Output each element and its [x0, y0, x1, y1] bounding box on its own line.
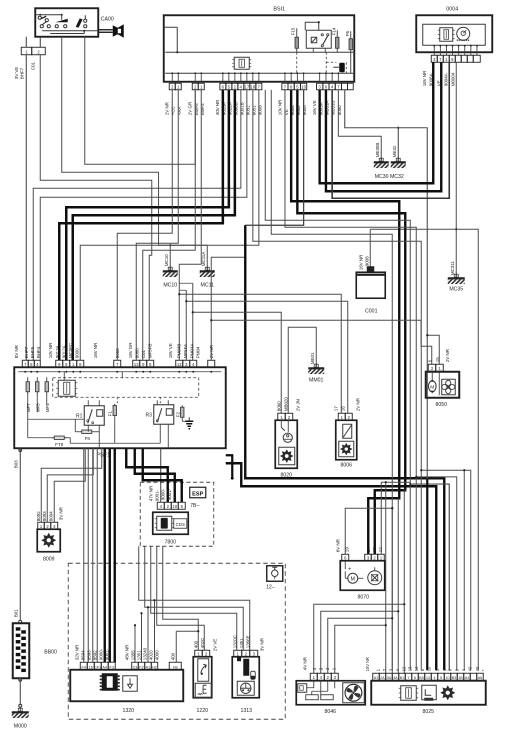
label 1320	[122, 708, 134, 714]
svg-text:PM04B: PM04B	[177, 344, 182, 359]
svg-text:F14: F14	[331, 27, 336, 35]
ground M000	[12, 707, 29, 718]
connector 1320	[80, 662, 181, 670]
svg-text:PM04: PM04	[196, 346, 201, 358]
svg-text:M: M	[351, 577, 355, 583]
wire 0004 to MC35	[455, 62, 457, 277]
svg-text:FT8: FT8	[55, 442, 64, 447]
svg-text:1B: 1B	[458, 676, 463, 680]
BSI1 outer box	[164, 15, 355, 82]
svg-text:8093: 8093	[42, 511, 47, 521]
svg-text:13: 13	[372, 547, 377, 552]
label PSF1	[97, 452, 110, 458]
label B01	[13, 609, 18, 617]
svg-text:2A: 2A	[380, 676, 385, 680]
wire psf right thick to 8025	[245, 225, 444, 670]
0004 connector	[431, 55, 480, 62]
compressor 8020 box	[275, 420, 297, 468]
wire C001 up	[370, 229, 456, 272]
svg-text:8060: 8060	[337, 105, 342, 115]
svg-text:F6: F6	[345, 31, 350, 37]
wire bsi 9002 thick to 8070	[297, 90, 405, 555]
svg-text:10: 10	[301, 85, 306, 90]
svg-text:2V NR: 2V NR	[209, 344, 214, 358]
svg-text:16V NR: 16V NR	[422, 70, 427, 86]
label 7B	[190, 503, 200, 509]
wire psf right stub2 thick to 8025	[226, 463, 437, 670]
wire 8006 feed2	[185, 300, 348, 413]
svg-text:CDS: CDS	[176, 522, 185, 527]
svg-text:B3: B3	[452, 676, 456, 680]
svg-text:PSF1: PSF1	[97, 452, 110, 458]
label C001	[365, 308, 378, 314]
label 3V VE	[14, 67, 19, 80]
svg-text:40: 40	[468, 666, 473, 671]
svg-text:4: 4	[434, 676, 436, 680]
svg-text:3V NR: 3V NR	[259, 637, 264, 651]
svg-text:BHF5: BHF5	[30, 346, 35, 358]
PSF1 IC	[56, 380, 77, 396]
wire bsi17 to psf	[33, 90, 241, 361]
label MC30 MC32	[375, 174, 404, 180]
svg-text:F2: F2	[175, 412, 180, 418]
wire bsi18 to psf	[40, 90, 247, 361]
svg-text:PM04A: PM04A	[190, 343, 195, 359]
ground MC11	[200, 251, 215, 277]
wires psf to 7800	[126, 448, 182, 502]
wires 8009 feeds	[41, 448, 102, 522]
svg-text:MC35: MC35	[449, 286, 463, 292]
svg-text:16V VE: 16V VE	[312, 100, 317, 115]
label MC35	[449, 286, 463, 292]
svg-text:BHF7: BHF7	[24, 346, 29, 358]
PSF1 top bus	[18, 371, 221, 373]
svg-text:16: 16	[340, 406, 345, 411]
wire bsi7g3 to psf	[80, 90, 259, 361]
wire psf4 riser	[179, 283, 193, 360]
wires 1320 right risers	[134, 599, 156, 662]
svg-text:9012A: 9012A	[62, 344, 67, 358]
svg-text:7800: 7800	[164, 539, 176, 545]
wires 8046 staircase	[314, 481, 406, 673]
wire psf 2vnr	[211, 256, 246, 360]
svg-text:8060: 8060	[135, 348, 140, 358]
label BHF7	[19, 67, 24, 79]
svg-text:9008: 9008	[258, 105, 263, 115]
label 8050	[435, 402, 447, 408]
svg-text:8050: 8050	[435, 402, 447, 408]
labels 8025	[365, 657, 486, 671]
ignition contact 3	[76, 15, 87, 28]
label M000	[14, 723, 27, 729]
ECU 8025 box	[371, 681, 486, 705]
wire 7800 to 1313 p3	[139, 546, 250, 650]
PSF1 internal wires	[28, 372, 186, 449]
label 8046	[324, 709, 336, 715]
fan resistor 8006 box	[336, 420, 357, 460]
svg-text:9001-: 9001-	[167, 488, 172, 500]
relay R1	[76, 400, 104, 425]
svg-text:40V NR: 40V NR	[215, 99, 220, 115]
connector 1220	[195, 650, 210, 657]
wire ign c2 right run	[62, 37, 159, 246]
ground MC10	[163, 254, 178, 277]
svg-text:2V NR: 2V NR	[165, 101, 170, 115]
label B03	[13, 460, 18, 468]
svg-text:19: 19	[344, 547, 349, 552]
label 0004	[446, 6, 458, 12]
PSF1 pin labels	[14, 342, 214, 359]
fan unit 8050 box	[426, 372, 460, 398]
svg-text:MF5: MF5	[35, 403, 40, 412]
svg-text:B1: B1	[400, 676, 404, 680]
svg-text:B01: B01	[13, 609, 18, 617]
wire MC32 junction	[397, 127, 399, 162]
svg-text:A4: A4	[465, 676, 469, 680]
ignition switch module CA00 box	[35, 8, 98, 37]
wire bsi6 to psf thick	[59, 90, 223, 361]
svg-text:A6: A6	[478, 676, 482, 680]
label CA00	[101, 16, 114, 22]
label 1313	[240, 708, 252, 714]
engine compartment dashed box	[68, 563, 285, 719]
svg-text:6V NR: 6V NR	[335, 538, 340, 552]
connector 8009	[38, 522, 58, 529]
svg-text:CA00: CA00	[101, 16, 114, 22]
svg-text:MF5FA: MF5FA	[183, 343, 188, 358]
svg-text:9001-: 9001-	[104, 648, 109, 660]
wire 8006 feed1	[178, 293, 341, 413]
fuse F1	[107, 404, 116, 418]
svg-text:M000: M000	[14, 723, 27, 729]
svg-text:ESP: ESP	[192, 491, 203, 497]
wire MC35 branch to 8025	[456, 229, 478, 670]
0004 pin labels	[422, 70, 456, 86]
svg-text:2V JN: 2V JN	[295, 399, 300, 411]
0004 inner stubs	[433, 45, 478, 55]
wire bsi5 to psf thick	[66, 90, 229, 361]
wire bsi 9005 med	[245, 90, 303, 226]
svg-text:400: 400	[193, 640, 198, 648]
svg-text:C001: C001	[365, 308, 378, 314]
label MC10	[163, 282, 177, 288]
connector 8046	[310, 673, 338, 680]
svg-text:MC10: MC10	[163, 282, 177, 288]
svg-text:2V NR: 2V NR	[445, 348, 450, 362]
svg-text:+: +	[348, 566, 351, 572]
svg-text:4000: 4000	[154, 650, 159, 660]
svg-text:16V GR: 16V GR	[128, 342, 133, 359]
svg-text:F8: F8	[85, 436, 91, 441]
labels 7800 pins	[148, 485, 172, 501]
svg-text:4020: 4020	[200, 638, 205, 648]
cluster 0004 box	[416, 15, 492, 52]
svg-text:13: 13	[408, 666, 413, 671]
svg-text:8592: 8592	[92, 650, 97, 660]
svg-text:15: 15	[435, 357, 440, 362]
wire to MC30	[338, 90, 381, 162]
wire 7800 to 1220 p1	[163, 546, 199, 650]
fan unit 8046 box	[296, 681, 365, 705]
svg-text:A1: A1	[374, 676, 378, 680]
wires psf to 1320 thin	[84, 448, 98, 662]
ignition contact 2	[55, 14, 68, 28]
svg-text:8092: 8092	[36, 511, 41, 521]
svg-text:47V NR: 47V NR	[148, 485, 153, 501]
svg-text:10: 10	[427, 666, 432, 671]
labels 1220	[193, 638, 217, 651]
svg-text:C01: C01	[30, 62, 35, 71]
wire bsi2vnr to psf7	[117, 90, 172, 361]
svg-text:12: 12	[402, 666, 407, 671]
wires 8025 A pins	[385, 603, 406, 673]
ECU 1320 box	[70, 670, 183, 702]
svg-text:10V NR: 10V NR	[278, 99, 283, 115]
svg-text:9004A: 9004A	[444, 72, 449, 86]
label 8025	[422, 709, 434, 715]
wire to psf12grp	[179, 90, 201, 361]
label BB00	[44, 649, 57, 655]
fan 8050 connector	[428, 364, 443, 371]
label MM01	[309, 377, 324, 383]
wire 8020 feed	[192, 311, 282, 413]
svg-text:B03: B03	[13, 460, 18, 468]
labels 8020	[276, 397, 300, 412]
svg-text:10: 10	[172, 504, 177, 509]
svg-text:2V GR: 2V GR	[188, 101, 193, 115]
labels 8046	[302, 656, 336, 670]
fuse F15	[290, 27, 298, 52]
svg-text:9000-: 9000-	[160, 488, 165, 500]
svg-text:8070: 8070	[357, 594, 369, 600]
svg-text:12: 12	[177, 362, 182, 367]
wire jog 449	[409, 482, 449, 670]
ground MC30	[374, 143, 389, 168]
svg-text:F1: F1	[107, 411, 112, 417]
wire 8050 feed2	[426, 334, 439, 364]
label 8009	[43, 556, 55, 562]
svg-text:5: 5	[440, 676, 442, 680]
fuse FT8	[51, 436, 67, 447]
svg-text:3A: 3A	[387, 676, 392, 680]
BSI connector pins	[169, 83, 353, 90]
svg-text:3V VE: 3V VE	[14, 67, 19, 80]
battery C001	[356, 266, 385, 298]
svg-text:BB00: BB00	[44, 649, 57, 655]
coil 1313 box	[232, 657, 259, 698]
svg-text:8060: 8060	[115, 348, 120, 358]
PSF1 ground	[185, 417, 193, 429]
resistor 8006 connector	[338, 413, 352, 420]
label MC11	[201, 282, 215, 288]
fuse MF7	[26, 377, 31, 412]
wire bsi d to 8070p1	[265, 90, 410, 555]
wire MC10 MC11 run	[159, 244, 208, 270]
label BSI1	[273, 6, 285, 12]
svg-text:MC5FC: MC5FC	[68, 342, 73, 358]
svg-text:MF4: MF4	[45, 403, 50, 412]
wire to psf9	[143, 90, 196, 361]
wire BB00 to M000	[19, 678, 22, 707]
svg-text:9000: 9000	[75, 348, 80, 358]
svg-text:1356E: 1356E	[245, 635, 250, 648]
svg-text:R3: R3	[146, 412, 153, 418]
relay R3	[146, 400, 174, 424]
svg-text:1320: 1320	[122, 708, 134, 714]
svg-text:4A: 4A	[393, 676, 398, 680]
label 1220	[196, 708, 208, 714]
svg-text:8052: 8052	[246, 105, 251, 115]
svg-text:8094: 8094	[48, 511, 53, 521]
svg-text:8060: 8060	[276, 401, 281, 411]
BSI IC U1	[232, 57, 251, 69]
svg-text:C01: C01	[141, 350, 146, 359]
svg-text:ME01: ME01	[310, 352, 315, 364]
wire B03 psf to BB00	[19, 448, 22, 623]
svg-text:1355: 1355	[130, 650, 135, 660]
fuse F14	[331, 27, 339, 52]
svg-text:15V NR: 15V NR	[365, 657, 370, 671]
label 8006	[340, 462, 352, 468]
svg-text:8594: 8594	[80, 650, 85, 660]
wire ign c3 right run	[85, 37, 196, 165]
wire bsi a to 8070p6	[271, 90, 392, 555]
battery junction BB00	[13, 623, 30, 678]
label 8020	[280, 472, 292, 478]
key symbol CA00	[98, 24, 124, 38]
wire 0004 t2 thick	[326, 62, 441, 191]
wire bsi e	[285, 90, 416, 671]
svg-text:9013A: 9013A	[55, 344, 60, 358]
PSF1 connector	[22, 360, 215, 367]
wire 1320 h3 to 1220	[176, 630, 199, 662]
svg-text:9005: 9005	[302, 105, 307, 115]
wire mc32 right long	[345, 90, 428, 671]
svg-text:4V NR: 4V NR	[302, 656, 307, 670]
svg-text:13240: 13240	[142, 647, 147, 660]
wire 0004 t3	[332, 62, 449, 198]
svg-text:BHF4: BHF4	[36, 346, 41, 358]
wire bsi2 to psf thick	[73, 90, 235, 361]
0004 inner box	[423, 24, 486, 45]
labels 8009 pins	[36, 506, 64, 521]
svg-text:8006: 8006	[340, 462, 352, 468]
svg-text:12: 12	[378, 547, 383, 552]
label 8070	[357, 594, 369, 600]
label 16V NR 9008	[358, 254, 369, 270]
wire 8050 feed1	[210, 319, 432, 364]
svg-text:9001B: 9001B	[240, 102, 245, 115]
compressor 8020 connector	[278, 413, 293, 420]
dashed box 7800	[140, 482, 214, 546]
wire to psf13	[136, 90, 178, 361]
svg-text:16V VE: 16V VE	[168, 343, 173, 358]
svg-text:M0004: M0004	[451, 72, 456, 86]
svg-text:1351: 1351	[239, 638, 244, 648]
labels 1320 right	[124, 644, 175, 660]
svg-text:1220: 1220	[196, 708, 208, 714]
svg-text:40: 40	[475, 666, 480, 671]
svg-text:16V NR: 16V NR	[93, 342, 98, 358]
PSF1 dashed bus	[53, 378, 199, 405]
0004 IC	[438, 28, 455, 42]
svg-text:8020: 8020	[280, 472, 292, 478]
svg-text:BHF7: BHF7	[19, 67, 24, 79]
wire 7800 to 1313 p1	[151, 546, 237, 650]
svg-text:9008: 9008	[364, 256, 369, 266]
PSF1 box	[14, 367, 226, 448]
wire 392 continue	[391, 507, 393, 670]
svg-text:8593: 8593	[86, 650, 91, 660]
svg-text:BSI1: BSI1	[273, 6, 285, 12]
wire 7800 to 1313 p2	[145, 546, 244, 650]
ESP label box	[190, 487, 206, 498]
labels 8070	[335, 538, 383, 552]
ground MC35	[448, 261, 465, 284]
svg-text:16V NR: 16V NR	[358, 254, 363, 270]
svg-text:10: 10	[446, 676, 450, 680]
labels 8006	[333, 397, 360, 411]
svg-text:8025: 8025	[422, 709, 434, 715]
svg-text:1313: 1313	[240, 708, 252, 714]
connector 8025	[373, 673, 484, 680]
svg-text:MM01: MM01	[309, 377, 324, 383]
svg-text:B5: B5	[419, 676, 423, 680]
ignition contact 1	[38, 14, 50, 28]
svg-text:8V NR: 8V NR	[14, 344, 19, 358]
BSI pin stubs	[171, 72, 339, 83]
fuse F5	[175, 405, 184, 419]
connector C01	[21, 47, 45, 55]
svg-text:0004: 0004	[446, 6, 458, 12]
fuse F6	[345, 31, 353, 74]
label 12	[266, 584, 275, 590]
svg-text:8009: 8009	[43, 556, 55, 562]
svg-text:2V VE: 2V VE	[212, 639, 217, 652]
wire 8020 to MM01	[288, 327, 316, 413]
svg-text:MC10: MC10	[164, 254, 169, 266]
svg-text:MB020: MB020	[283, 397, 288, 412]
labels 1320 left	[74, 644, 109, 660]
connector 7800	[157, 502, 185, 509]
svg-text:ME30B: ME30B	[375, 143, 380, 158]
label C01	[30, 62, 35, 71]
ECU 7800 box	[153, 512, 189, 534]
svg-text:8046: 8046	[324, 709, 336, 715]
ground MC32	[391, 145, 406, 168]
svg-text:13: 13	[426, 676, 430, 680]
sensor 12 box	[267, 566, 283, 582]
svg-text:10V NR: 10V NR	[48, 342, 53, 358]
labels 1313	[232, 634, 264, 651]
svg-text:4020: 4020	[148, 650, 153, 660]
svg-text:1351: 1351	[136, 650, 141, 660]
svg-text:12--: 12--	[266, 584, 275, 590]
fuse MF4	[45, 377, 50, 412]
connector 8070	[342, 554, 385, 561]
BSI relay	[305, 21, 331, 52]
svg-text:R1: R1	[76, 413, 83, 419]
wire jog 456	[415, 476, 457, 671]
labels 8050	[427, 348, 450, 362]
BSI dashed internals	[297, 52, 347, 73]
fuse MF5	[35, 377, 40, 412]
svg-text:ME32: ME32	[392, 145, 397, 157]
svg-text:8051: 8051	[252, 105, 257, 115]
svg-text:MF5FB: MF5FB	[148, 344, 153, 359]
wire bsi 9004 thick to 8070	[291, 90, 399, 555]
svg-text:MF7: MF7	[26, 403, 31, 412]
